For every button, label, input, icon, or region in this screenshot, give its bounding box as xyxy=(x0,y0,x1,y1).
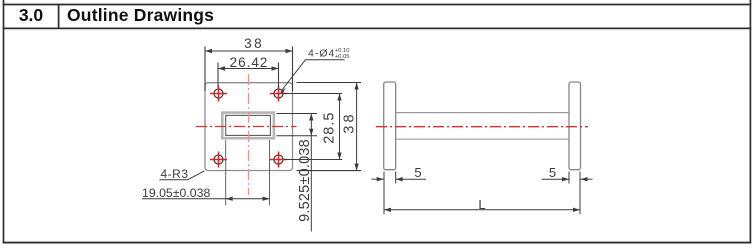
flange body outline xyxy=(205,83,293,171)
dimension 38 top xyxy=(205,47,293,92)
svg-text:5: 5 xyxy=(414,165,421,180)
svg-text:L: L xyxy=(478,197,485,212)
bolt hole bottom-left xyxy=(210,152,227,168)
header cell divider xyxy=(58,5,60,29)
waveguide aperture outer rim xyxy=(222,113,274,139)
svg-text:+0.05: +0.05 xyxy=(335,54,350,60)
svg-text:26.42: 26.42 xyxy=(230,55,269,70)
bolt hole top-right xyxy=(270,86,287,102)
label 4-R3 xyxy=(160,167,205,181)
dimension 28.5 vertical xyxy=(337,94,341,160)
table bottom border xyxy=(3,242,752,244)
svg-text:4-R3: 4-R3 xyxy=(161,167,189,181)
vertical centerline xyxy=(248,74,250,195)
dimension 38 vertical xyxy=(354,83,358,171)
waveguide tube top line xyxy=(396,112,569,114)
left flange plate xyxy=(384,82,396,170)
waveguide aperture inner edge xyxy=(226,115,271,135)
waveguide tube bottom line xyxy=(396,138,569,140)
dimension 26.42 xyxy=(218,63,279,88)
table outer right border xyxy=(749,0,751,243)
svg-text:4-Ø4: 4-Ø4 xyxy=(308,48,335,60)
svg-text:Outline Drawings: Outline Drawings xyxy=(67,5,214,25)
svg-text:28.5: 28.5 xyxy=(322,112,338,144)
dimension 9.525 vertical xyxy=(277,114,318,232)
header row top line xyxy=(3,4,752,6)
dimension 5 left xyxy=(372,172,427,184)
table outer left border xyxy=(3,0,5,243)
bolt hole top-left xyxy=(210,86,227,102)
label 4-dia4 with tolerance xyxy=(280,48,349,94)
svg-text:3.0: 3.0 xyxy=(19,5,44,25)
svg-text:19.05±0.038: 19.05±0.038 xyxy=(142,186,210,200)
side view centerline xyxy=(376,126,588,128)
horizontal centerline xyxy=(196,126,297,128)
dimension 19.05 xyxy=(142,140,270,206)
header row bottom line xyxy=(3,27,752,29)
bolt hole bottom-right xyxy=(270,152,287,168)
svg-text:38: 38 xyxy=(341,111,357,134)
svg-text:5: 5 xyxy=(549,165,556,180)
svg-text:38: 38 xyxy=(244,36,264,51)
dimension 5 right xyxy=(542,172,593,184)
svg-text:9.525±0.038: 9.525±0.038 xyxy=(297,139,313,222)
dimension L xyxy=(384,172,580,215)
extension lines right side holes xyxy=(284,83,361,171)
right flange plate xyxy=(569,82,581,170)
